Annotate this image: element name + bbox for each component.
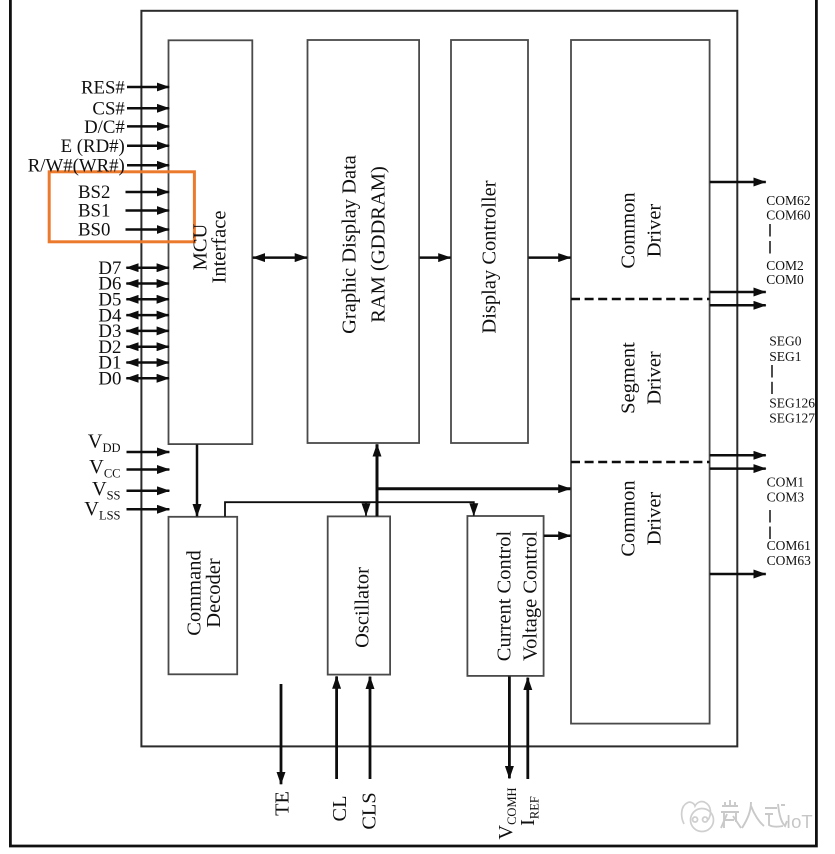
svg-text:Voltage Control: Voltage Control [519,531,541,661]
label CLS [359,792,381,829]
wire VLSS [127,508,170,511]
svg-text:VDD: VDD [88,431,121,455]
wire MCU-CommandDecoder [196,444,199,516]
ellipsis bars right labels [769,224,771,237]
wire clock to CommonDriver [376,487,571,490]
wire DisplayController-CommonDriver [528,256,570,259]
svg-text:COM1: COM1 [767,475,805,490]
wire COM top output [710,181,766,184]
wire VCC [127,468,170,471]
wire TE [280,684,283,784]
svg-text:VCC: VCC [89,456,120,480]
wire BS1 [126,209,170,212]
svg-text:CLS: CLS [359,792,381,829]
label IREF [517,796,541,826]
wire CL [335,676,338,779]
svg-text:Driver: Driver [644,204,666,258]
svg-text:BS1: BS1 [78,201,110,222]
svg-text:IREF: IREF [517,796,541,826]
wire COM1 pair lower output [710,467,766,470]
wire Oscillator-GDDRAM clock [376,444,379,516]
block Common/Segment Driver [571,40,710,724]
watermark logo [682,802,714,832]
wire VCOMH [508,676,511,778]
block GDDRAM [308,40,420,443]
wire E (RD#) [127,144,169,147]
svg-text:Oscillator: Oscillator [352,567,374,648]
svg-text:Display Controller: Display Controller [478,180,500,333]
svg-text:COM3: COM3 [767,490,805,505]
svg-text:SEG1: SEG1 [769,349,801,364]
svg-text:SEG0: SEG0 [769,333,802,348]
svg-text:CL: CL [329,796,351,822]
wire CommandDecoder control net [225,502,474,516]
wire GDDRAM-DisplayController [420,256,451,259]
svg-text:Interface: Interface [208,211,230,284]
wire R/W#(WR#) [127,164,169,167]
svg-text:SEG127: SEG127 [769,410,815,425]
svg-text:R/W#(WR#): R/W#(WR#) [28,156,125,177]
wire SEG pair lower output [710,454,766,457]
svg-text:COM0: COM0 [766,272,804,287]
labels COM top [766,193,815,568]
svg-text:COM60: COM60 [766,208,811,223]
svg-text:E (RD#): E (RD#) [61,136,125,157]
svg-text:COM63: COM63 [767,553,812,568]
labels power [84,431,120,523]
wire D2 [126,345,169,348]
wire D3 [126,330,169,333]
label Oscillator [352,567,374,648]
wire CLS [369,677,372,779]
svg-text:COM62: COM62 [766,193,810,208]
svg-text:RAM (GDDRAM): RAM (GDDRAM) [368,166,390,323]
label Display Controller [478,180,500,333]
wire CS# [127,107,169,110]
wire BS2 [126,191,170,194]
wire D6 [126,282,169,285]
label Current/Voltage Control [493,531,541,662]
highlight BS2-BS0 [49,172,194,242]
svg-text:Common: Common [618,480,640,556]
svg-text:Driver: Driver [644,351,666,405]
dashed separator upper [571,298,710,301]
svg-text:TE: TE [272,791,294,816]
wire IREF [526,678,529,779]
svg-text:Decoder: Decoder [203,558,225,628]
svg-text:VCOMH: VCOMH [495,787,519,839]
wire VDD [127,451,170,454]
block Command Decoder [169,517,238,675]
wire control net stub to Oscillator [365,502,367,515]
svg-text:D0: D0 [98,369,121,390]
svg-text:D/C#: D/C# [84,117,125,138]
svg-text:Segment: Segment [618,342,640,414]
wire COM bottom output [710,573,766,576]
wire D7 [126,266,169,269]
wire CurrentControl-CommonDriver [544,534,571,537]
watermark text 嵌入式IoT (approximated strokes) [721,800,787,828]
chip boundary [141,11,737,747]
svg-text:RES#: RES# [81,77,125,98]
block Current/Voltage Control [467,516,543,676]
block Display Controller [451,40,528,443]
label Common Driver top [618,192,666,268]
wire RES# [127,86,169,89]
wire D5 [126,298,169,301]
svg-text:IoT: IoT [786,811,813,832]
svg-text:BS0: BS0 [78,220,110,241]
dashed separator lower [571,461,710,464]
wire SEG pair upper output [710,304,766,307]
label Segment Driver [618,342,666,414]
wire COM0 pair upper output [710,291,766,294]
svg-text:Graphic Display Data: Graphic Display Data [339,155,361,334]
label Common Driver bottom [618,480,666,556]
wire D/C# [127,125,169,128]
label MCU Interface [189,211,230,284]
svg-text:Common: Common [618,192,640,268]
label TE [272,791,294,816]
label Command Decoder [184,550,226,635]
wire D4 [126,314,169,317]
wire VSS [127,490,170,493]
labels left inputs [28,77,126,389]
svg-text:SEG126: SEG126 [769,396,815,411]
svg-text:COM61: COM61 [767,538,811,553]
wire MCU-GDDRAM bus [253,256,307,259]
wire D1 [126,361,169,364]
svg-text:Driver: Driver [644,492,666,546]
svg-text:COM2: COM2 [766,258,804,273]
label GDDRAM [339,155,390,334]
block Oscillator [328,516,390,674]
wire BS0 [126,228,170,231]
label CL [329,796,351,822]
svg-text:Current Control: Current Control [493,531,515,662]
block MCU Interface [169,40,253,444]
wire D0 [126,377,169,380]
label VCOMH [495,787,519,839]
